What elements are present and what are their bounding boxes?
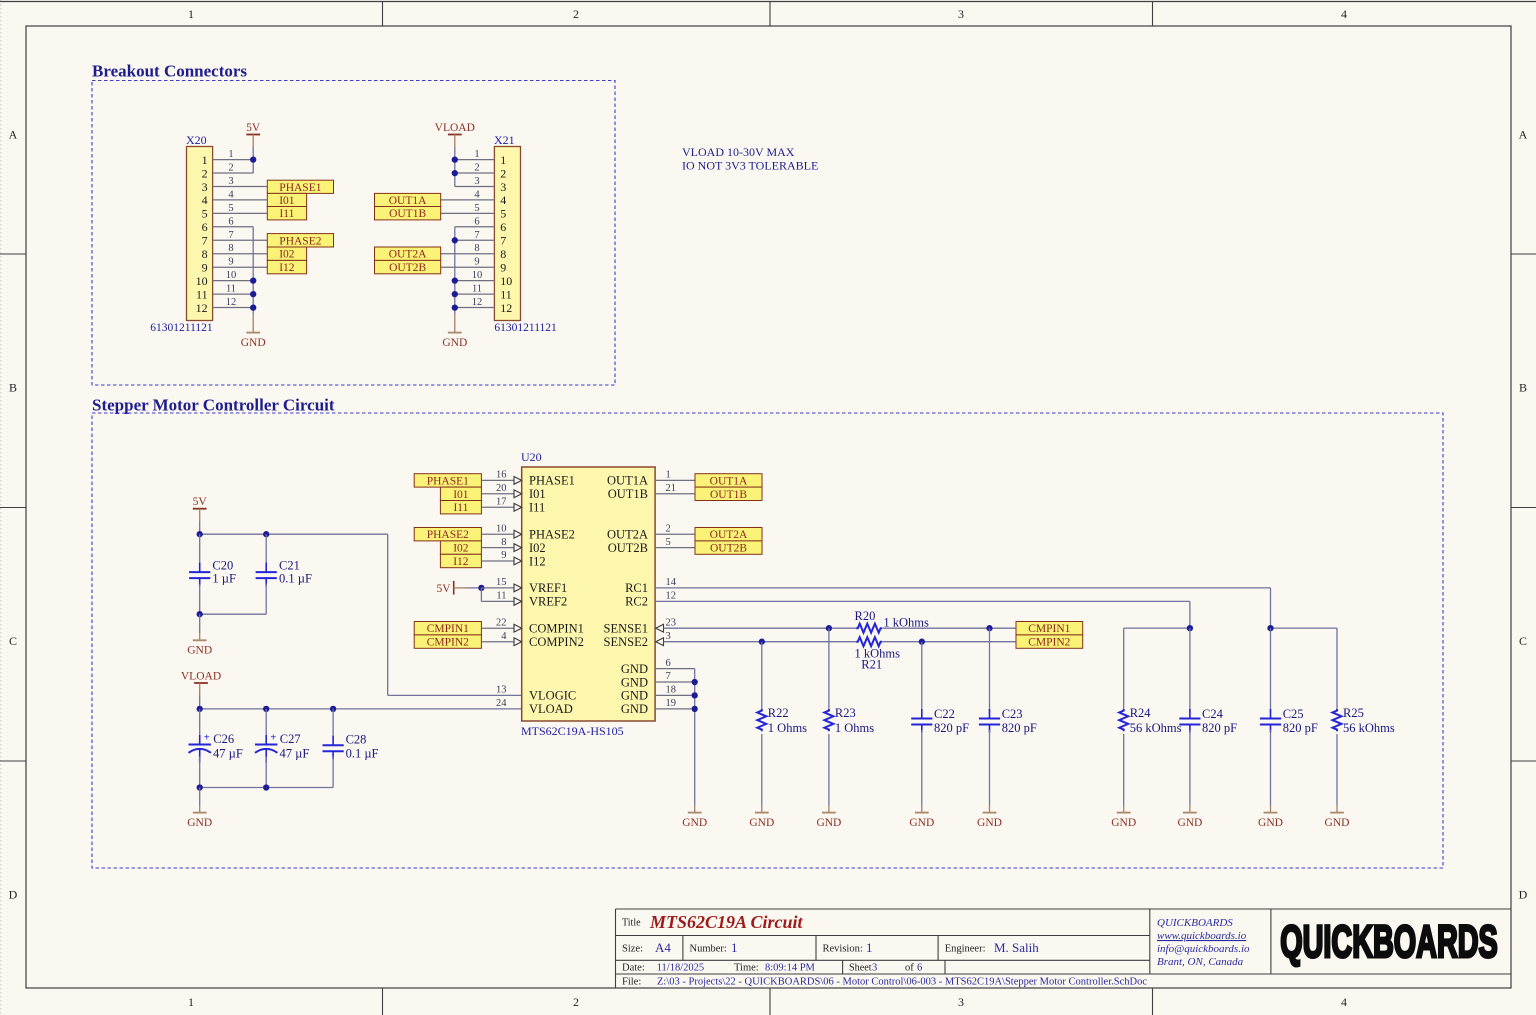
svg-text:7: 7 (500, 234, 506, 248)
ground symbol R22 (749, 806, 774, 829)
svg-text:3: 3 (202, 180, 208, 194)
stepper section dashed border (92, 413, 1443, 868)
svg-text:PHASE2: PHASE2 (427, 529, 469, 541)
sheet frame outer top line (0, 1, 1536, 3)
port I01 (X20) (267, 193, 306, 207)
svg-text:C25: C25 (1283, 707, 1304, 721)
X21 pin 10 wire (455, 280, 495, 282)
svg-text:24: 24 (496, 698, 507, 709)
wire to VREF2 (481, 600, 514, 602)
wire SENSE2 to R22 (761, 642, 763, 711)
wire C26-C28 gnd rail (200, 787, 333, 789)
svg-text:COMPIN2: COMPIN2 (529, 635, 584, 649)
power port VLOAD (rail) (181, 670, 221, 683)
port OUT2A (U20) (695, 528, 762, 542)
X20 pin 12 wire (213, 307, 254, 309)
svg-text:8: 8 (202, 247, 208, 261)
svg-text:4: 4 (228, 189, 234, 200)
svg-text:OUT2B: OUT2B (389, 262, 426, 274)
svg-text:1: 1 (666, 470, 671, 481)
svg-text:Breakout Connectors: Breakout Connectors (92, 62, 247, 81)
input arrow SENSE1 (656, 624, 664, 632)
X20 pin 5 wire (213, 212, 268, 214)
svg-text:OUT2B: OUT2B (608, 541, 648, 555)
svg-text:4: 4 (1341, 995, 1347, 1009)
svg-text:6: 6 (917, 962, 922, 973)
svg-text:of: of (905, 962, 914, 973)
svg-text:9: 9 (501, 550, 506, 561)
svg-text:+: + (270, 733, 276, 744)
wire port to U20 row 11 (481, 627, 514, 629)
wire R25 down (1336, 628, 1338, 710)
svg-text:8: 8 (228, 243, 233, 254)
svg-text:U20: U20 (521, 450, 542, 464)
wire SENSE2 right part to CMPIN2 (883, 641, 1016, 643)
svg-text:9: 9 (500, 261, 506, 275)
wire gnd rail to ground (199, 614, 201, 633)
svg-text:R25: R25 (1343, 706, 1364, 720)
svg-text:6: 6 (228, 216, 233, 227)
svg-text:QUICKBOARDS: QUICKBOARDS (1280, 918, 1498, 968)
svg-text:C: C (9, 634, 17, 648)
wire U20 OUT1A to port (655, 479, 695, 481)
svg-text:I12: I12 (529, 554, 546, 568)
svg-text:OUT2B: OUT2B (710, 543, 747, 555)
svg-text:7: 7 (228, 230, 233, 241)
svg-text:C27: C27 (280, 732, 301, 746)
resistor R21 (856, 637, 882, 646)
svg-text:61301211121: 61301211121 (150, 322, 213, 334)
X20 pin 10 wire (213, 280, 254, 282)
svg-text:info@quickboards.io: info@quickboards.io (1157, 943, 1250, 955)
X20 pin 3 wire (213, 186, 268, 188)
svg-text:12: 12 (472, 297, 483, 308)
svg-text:0.1 µF: 0.1 µF (346, 746, 379, 760)
zone tick bottom (1152, 988, 1154, 1015)
title block (616, 909, 1512, 988)
svg-text:4: 4 (474, 189, 480, 200)
input arrow U20 row 11 (514, 624, 522, 632)
ground symbol R24 (1111, 806, 1136, 829)
svg-text:Number:: Number: (690, 944, 727, 955)
svg-text:11: 11 (226, 284, 236, 295)
port OUT1A (U20) (695, 474, 762, 488)
wire VLOAD rail to chip pin 24 (200, 708, 522, 710)
wire to VREF1 (481, 587, 514, 589)
wire RC1 horizontal (655, 587, 1270, 589)
svg-text:12: 12 (196, 301, 208, 315)
svg-text:1: 1 (500, 153, 506, 167)
svg-text:VLOAD 10-30V MAX: VLOAD 10-30V MAX (682, 145, 795, 159)
ground symbol C22 (909, 806, 934, 829)
port OUT1B (X21) (375, 207, 441, 221)
wire VLOAD to pins 1-3 (454, 147, 456, 187)
svg-text:RC2: RC2 (625, 595, 648, 609)
svg-text:5V: 5V (246, 122, 261, 134)
ground symbol X20 (241, 326, 266, 349)
svg-text:+: + (204, 733, 210, 744)
junction VLOAD C28 (330, 706, 336, 712)
svg-text:10: 10 (226, 270, 237, 281)
X21 pin 1 wire (455, 159, 495, 161)
svg-text:12: 12 (666, 591, 677, 602)
svg-text:2: 2 (474, 163, 479, 174)
svg-text:Engineer:: Engineer: (945, 944, 986, 955)
port PHASE1 (U20) (414, 474, 481, 488)
svg-text:GND: GND (241, 337, 266, 349)
svg-text:C22: C22 (934, 707, 955, 721)
port I12 (U20) (440, 554, 481, 568)
svg-text:5: 5 (202, 207, 208, 221)
X21 pin 5 wire (441, 212, 495, 214)
input arrow SENSE2 (656, 638, 664, 646)
svg-text:VLOAD: VLOAD (181, 670, 221, 682)
svg-text:7: 7 (666, 671, 671, 682)
svg-text:Title: Title (622, 918, 641, 929)
svg-text:20: 20 (496, 483, 507, 494)
svg-text:I11: I11 (453, 502, 468, 514)
power port 5V (X20) (246, 122, 261, 135)
X20 pin 11 wire (213, 293, 254, 295)
svg-text:R21: R21 (861, 658, 882, 672)
svg-text:56 kOhms: 56 kOhms (1130, 721, 1182, 735)
svg-text:19: 19 (666, 698, 677, 709)
wire SENSE1 right part to CMPIN1 (883, 627, 1016, 629)
port PHASE2 (X20) (267, 234, 333, 248)
svg-text:18: 18 (666, 685, 677, 696)
X20 pin 6 wire (213, 226, 254, 228)
wire RC1 down to C25 (1270, 588, 1272, 628)
svg-text:PHASE1: PHASE1 (279, 182, 321, 194)
wire 5V to VREF junction (467, 587, 481, 589)
svg-text:www.quickboards.io: www.quickboards.io (1157, 930, 1247, 942)
svg-text:I11: I11 (529, 501, 545, 515)
svg-text:3: 3 (666, 631, 671, 642)
svg-text:R20: R20 (855, 609, 876, 623)
svg-text:Size:: Size: (622, 944, 643, 955)
svg-text:Sheet: Sheet (849, 962, 872, 973)
wire C26 to gnd rail (199, 757, 201, 788)
svg-text:X20: X20 (186, 133, 207, 147)
svg-text:16: 16 (496, 470, 507, 481)
svg-text:8: 8 (500, 247, 506, 261)
svg-text:23: 23 (666, 617, 677, 628)
X20 pin 4 wire (213, 199, 268, 201)
junction VREF1/VREF2 (478, 585, 484, 591)
wire U20 GND pin row 14 (655, 668, 695, 670)
port PHASE2 (U20) (414, 528, 481, 542)
wire 5V to C21 (265, 534, 267, 566)
wire R24 to ground (1123, 734, 1125, 806)
wire 5V rail horizontal (200, 533, 388, 535)
title block texts (622, 912, 1147, 987)
wire 5V rail down to VLOGIC (387, 534, 389, 695)
ground symbol C20 rail (187, 633, 212, 656)
svg-text:C28: C28 (346, 733, 367, 747)
port OUT2B (X21) (375, 260, 441, 274)
X21 pin 3 wire (455, 186, 495, 188)
svg-text:File:: File: (622, 976, 641, 987)
wire R24 down (1123, 628, 1125, 710)
svg-text:8: 8 (501, 537, 506, 548)
svg-text:10: 10 (472, 270, 483, 281)
svg-text:9: 9 (228, 257, 233, 268)
X20 pin 2 wire (213, 172, 254, 174)
svg-text:I02: I02 (529, 541, 546, 555)
svg-text:3: 3 (958, 995, 964, 1009)
svg-text:I12: I12 (453, 556, 469, 568)
svg-text:C: C (1519, 634, 1527, 648)
wire SENSE2 to C22 (921, 642, 923, 713)
input arrow U20 row 1 (514, 490, 522, 498)
svg-text:I02: I02 (279, 249, 295, 261)
zone tick right (1511, 507, 1536, 509)
resistor R23 (824, 709, 833, 731)
svg-text:M. Salih: M. Salih (994, 940, 1039, 955)
wire R25 to ground (1336, 734, 1338, 806)
svg-text:IO NOT 3V3 TOLERABLE: IO NOT 3V3 TOLERABLE (682, 159, 818, 173)
wire 5V to C20 (199, 534, 201, 566)
junction SENSE1 C23 (986, 625, 992, 631)
X20 pin 7 wire (213, 239, 268, 241)
svg-text:GND: GND (187, 817, 212, 829)
svg-text:5: 5 (666, 537, 671, 548)
zone tick left (0, 760, 26, 762)
junction X21 pin12 (452, 304, 458, 310)
svg-text:6: 6 (500, 220, 506, 234)
wire port to U20 row 5 (481, 547, 514, 549)
junction RC1 C25 (1267, 625, 1273, 631)
port OUT2A (X21) (375, 247, 441, 261)
X20 pin 9 wire (213, 266, 268, 268)
svg-text:15: 15 (496, 577, 507, 588)
svg-text:11: 11 (472, 284, 482, 295)
sheet frame left dotted edge (0, 0, 2, 1015)
zone tick top (769, 2, 771, 27)
svg-text:12: 12 (500, 301, 512, 315)
svg-text:SENSE2: SENSE2 (604, 635, 648, 649)
svg-text:11: 11 (196, 287, 208, 301)
wire U20 OUT1B to port (655, 493, 695, 495)
svg-text:GND: GND (1177, 817, 1202, 829)
svg-text:I01: I01 (279, 195, 295, 207)
svg-text:Brant, ON, Canada: Brant, ON, Canada (1157, 956, 1244, 968)
X20 pin 1 wire (213, 159, 254, 161)
svg-text:OUT1A: OUT1A (607, 474, 648, 488)
X21 pin 12 wire (455, 307, 495, 309)
svg-text:11/18/2025: 11/18/2025 (657, 962, 704, 973)
VLOAD rail stem (199, 683, 201, 695)
wire RC2 horizontal (655, 600, 1190, 602)
junction X21 pin2 (452, 170, 458, 176)
junction X20 pin10 (250, 277, 256, 283)
svg-text:1 µF: 1 µF (212, 571, 236, 585)
wire C25 to R25 top (1271, 627, 1338, 629)
svg-text:3: 3 (958, 7, 964, 21)
svg-text:5: 5 (228, 203, 233, 214)
wire C28 down (332, 757, 334, 788)
port CMPIN1 (U20) (414, 622, 481, 636)
ground symbol C24 (1177, 806, 1202, 829)
svg-text:OUT1A: OUT1A (389, 195, 427, 207)
wire C27 down (265, 757, 267, 788)
wire C24 to ground (1189, 730, 1191, 806)
wire C20 to gnd rail (199, 584, 201, 615)
junction VLOAD C27 (263, 706, 269, 712)
X21 pin 7 wire (455, 239, 495, 241)
svg-text:7: 7 (474, 230, 479, 241)
wire U20 OUT2B to port (655, 547, 695, 549)
input arrow U20 row 12 (514, 638, 522, 646)
capacitor C26 (polarized) (189, 733, 211, 763)
port CMPIN2 (right) (1016, 635, 1083, 649)
wire port to U20 row 6 (481, 560, 514, 562)
svg-text:PHASE2: PHASE2 (279, 235, 321, 247)
svg-text:Date:: Date: (622, 962, 645, 973)
svg-text:Revision:: Revision: (823, 944, 863, 955)
5V stem (252, 135, 254, 148)
junction C26 gnd rail (197, 784, 203, 790)
junction X21 pin10 (452, 277, 458, 283)
svg-text:R22: R22 (768, 706, 789, 720)
5V rail stem (199, 509, 201, 521)
svg-text:GND: GND (909, 817, 934, 829)
wire 5V to pins 1-2 (252, 147, 254, 173)
svg-text:C23: C23 (1002, 707, 1023, 721)
wire X21 pin6 down to GND (454, 227, 456, 314)
wire C25 to ground (1270, 730, 1272, 806)
junction X21 pin11 (452, 291, 458, 297)
X21 pin 2 wire (455, 172, 495, 174)
svg-text:MTS62C19A Circuit: MTS62C19A Circuit (649, 912, 804, 932)
svg-text:Stepper Motor Controller Circu: Stepper Motor Controller Circuit (92, 396, 335, 415)
svg-text:22: 22 (496, 617, 507, 628)
wire C22 to ground (921, 730, 923, 806)
junction 5V rail C21 (263, 531, 269, 537)
svg-text:1: 1 (731, 940, 738, 955)
wire U20 GND pin row 15 (655, 681, 695, 683)
port OUT1B (U20) (695, 487, 762, 501)
wire port to U20 row 1 (481, 493, 514, 495)
breakout section dashed border (92, 81, 615, 386)
svg-text:14: 14 (666, 577, 677, 588)
svg-text:2: 2 (573, 995, 579, 1009)
wire U20 OUT2A to port (655, 533, 695, 535)
port CMPIN1 (right) (1016, 622, 1083, 636)
input arrow VREF1 (514, 584, 522, 592)
svg-text:OUT2A: OUT2A (389, 249, 427, 261)
svg-text:1: 1 (202, 153, 208, 167)
port I11 (X20) (267, 207, 306, 221)
svg-text:C24: C24 (1202, 707, 1224, 721)
5V VREF stem wire (454, 587, 467, 589)
resistor R25 (1333, 709, 1342, 731)
capacitor C27 (polarized) (255, 733, 277, 763)
wire C25 down (1270, 628, 1272, 713)
svg-text:11: 11 (496, 591, 506, 602)
svg-text:OUT1B: OUT1B (389, 208, 426, 220)
ground symbol R23 (816, 806, 841, 829)
X20 pin 8 wire (213, 253, 268, 255)
zone tick right (1511, 760, 1536, 762)
svg-text:8: 8 (474, 243, 479, 254)
svg-text:GND: GND (1111, 817, 1136, 829)
svg-text:9: 9 (202, 261, 208, 275)
svg-text:820 pF: 820 pF (934, 721, 969, 735)
svg-text:GND: GND (1325, 817, 1350, 829)
svg-text:VLOGIC: VLOGIC (529, 689, 576, 703)
svg-text:2: 2 (666, 523, 671, 534)
svg-text:5: 5 (474, 203, 479, 214)
svg-text:2: 2 (202, 166, 208, 180)
X21 pin 6 wire (455, 226, 495, 228)
junction GND pin19 (692, 706, 698, 712)
svg-text:0.1 µF: 0.1 µF (279, 571, 312, 585)
svg-text:7: 7 (202, 234, 208, 248)
svg-text:1 Ohms: 1 Ohms (835, 721, 874, 735)
junction VLOAD C26 (197, 706, 203, 712)
svg-text:2: 2 (573, 7, 579, 21)
svg-text:47 µF: 47 µF (280, 746, 310, 760)
junction 5V rail C20 (197, 531, 203, 537)
svg-text:I01: I01 (529, 487, 546, 501)
junction C20 gnd rail (197, 611, 203, 617)
wire chip GND down (694, 669, 696, 806)
zone tick bottom (382, 988, 384, 1015)
svg-text:4: 4 (500, 193, 506, 207)
junction GND pin7 (692, 679, 698, 685)
ground symbol VLOAD rail (187, 806, 212, 829)
svg-text:VLOAD: VLOAD (529, 702, 573, 716)
wire port to U20 row 12 (481, 641, 514, 643)
port PHASE1 (X20) (267, 180, 333, 194)
svg-text:CMPIN1: CMPIN1 (427, 623, 469, 635)
ground symbol U20 (682, 806, 707, 829)
zone tick left (0, 253, 26, 255)
svg-text:GND: GND (1258, 817, 1283, 829)
svg-text:820 pF: 820 pF (1283, 721, 1318, 735)
5V VREF bar (453, 581, 455, 595)
svg-text:OUT1B: OUT1B (710, 489, 747, 501)
VLOAD stem (454, 135, 456, 148)
input arrow VREF2 (514, 598, 522, 606)
svg-text:Z:\03 - Projects\22 - QUICKBOA: Z:\03 - Projects\22 - QUICKBOARDS\06 - M… (657, 976, 1147, 987)
resistor R24 (1119, 709, 1128, 731)
svg-text:1: 1 (188, 995, 194, 1009)
junction GND pin18 (692, 692, 698, 698)
junction X20 pin1 5V (250, 156, 256, 162)
wire U20 GND pin row 16 (655, 694, 695, 696)
wire VLOAD to C28 (332, 709, 334, 740)
connector X20 body (187, 147, 213, 321)
capacitor C25 (1260, 709, 1281, 733)
svg-text:CMPIN2: CMPIN2 (427, 637, 469, 649)
svg-text:17: 17 (496, 497, 507, 508)
wire R23 to ground (828, 734, 830, 806)
junction SENSE1 R23 (826, 625, 832, 631)
company info (1157, 917, 1250, 968)
ground symbol R25 (1325, 806, 1350, 829)
zone tick left (0, 507, 26, 509)
svg-text:820 pF: 820 pF (1202, 721, 1237, 735)
svg-text:5V: 5V (437, 583, 452, 595)
svg-text:GND: GND (621, 675, 648, 689)
resistor R20 (856, 624, 882, 633)
svg-text:6: 6 (474, 216, 479, 227)
svg-text:GND: GND (621, 702, 648, 716)
wire SENSE1 left part (664, 627, 857, 629)
capacitor C28 (323, 736, 344, 760)
